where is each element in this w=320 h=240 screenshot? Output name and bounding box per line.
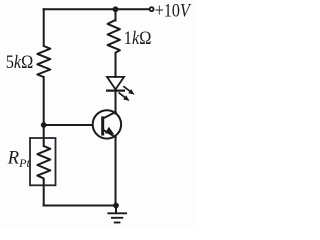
svg-text:5kΩ: 5kΩ [6,51,34,72]
svg-text:1kΩ: 1kΩ [124,27,152,48]
svg-text:+10V: +10V [155,0,192,20]
